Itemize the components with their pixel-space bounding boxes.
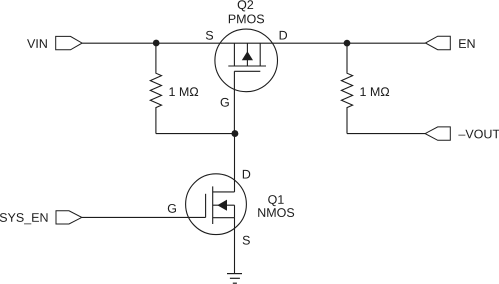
wire SYS_EN to Q1 gate <box>82 216 206 218</box>
connector VIN <box>56 36 82 49</box>
ground <box>227 274 242 284</box>
pin label G of Q2 <box>221 98 229 107</box>
node EN label <box>459 39 474 48</box>
node SYS_EN label <box>0 213 48 224</box>
transistor Q1 NMOS internals <box>206 186 235 224</box>
pin label S of Q2 <box>206 31 213 40</box>
wire Q1 source down to ground <box>234 218 236 274</box>
transistor Q2 PMOS body circle <box>215 29 278 92</box>
wire Q2 gate lead down to junction <box>233 71 235 133</box>
pin D stub of Q2 <box>259 43 261 66</box>
type label PMOS <box>229 14 264 23</box>
junction at Q2 gate and Q1 drain <box>231 130 238 137</box>
gate plate of Q1 <box>205 194 207 218</box>
node VIN label <box>27 39 47 48</box>
arrow of Q1 pointing left <box>217 200 227 211</box>
channel line of Q1 <box>212 186 214 224</box>
channel line of Q2 <box>228 65 266 67</box>
pin label G of Q1 <box>168 204 176 213</box>
connector SYS_EN <box>56 211 82 224</box>
transistor Q1 NMOS body circle <box>186 174 247 235</box>
wire VIN to EN main rail <box>82 42 425 44</box>
body line of Q1 with arrow <box>213 204 235 206</box>
source line of Q1 <box>213 217 235 219</box>
wire right resistor bottom to VOUT connector <box>347 133 425 135</box>
refdes label Q2 <box>238 0 253 11</box>
wire junction down to Q1 drain <box>234 134 236 192</box>
arrow of Q2 pointing up <box>242 51 253 60</box>
substrate arrow stub of Q2 <box>246 43 248 66</box>
value label 1 Mohm left <box>169 87 198 96</box>
resistor left 1 Mohm <box>150 43 161 133</box>
value label 1 Mohm right <box>360 87 389 96</box>
pin S stub of Q2 <box>233 43 235 66</box>
refdes label Q1 <box>268 195 283 206</box>
pin label D of Q1 <box>243 170 250 179</box>
junction at EN rail and right resistor <box>344 40 351 47</box>
drain line of Q1 <box>213 191 235 193</box>
pin label D of Q2 <box>280 31 287 40</box>
type label NMOS <box>258 208 294 217</box>
pin label S of Q1 <box>243 236 250 245</box>
resistor right 1 Mohm <box>341 43 352 133</box>
source tie vertical of Q1 <box>234 205 236 218</box>
connector -VOUT <box>425 127 450 140</box>
wire left resistor bottom to gate junction <box>156 133 235 135</box>
gate plate of Q2 <box>234 70 260 72</box>
node -VOUT label <box>458 130 499 139</box>
transistor Q2 PMOS internals <box>228 43 266 71</box>
junction at VIN rail and left resistor <box>153 40 160 47</box>
connector EN <box>425 36 450 50</box>
